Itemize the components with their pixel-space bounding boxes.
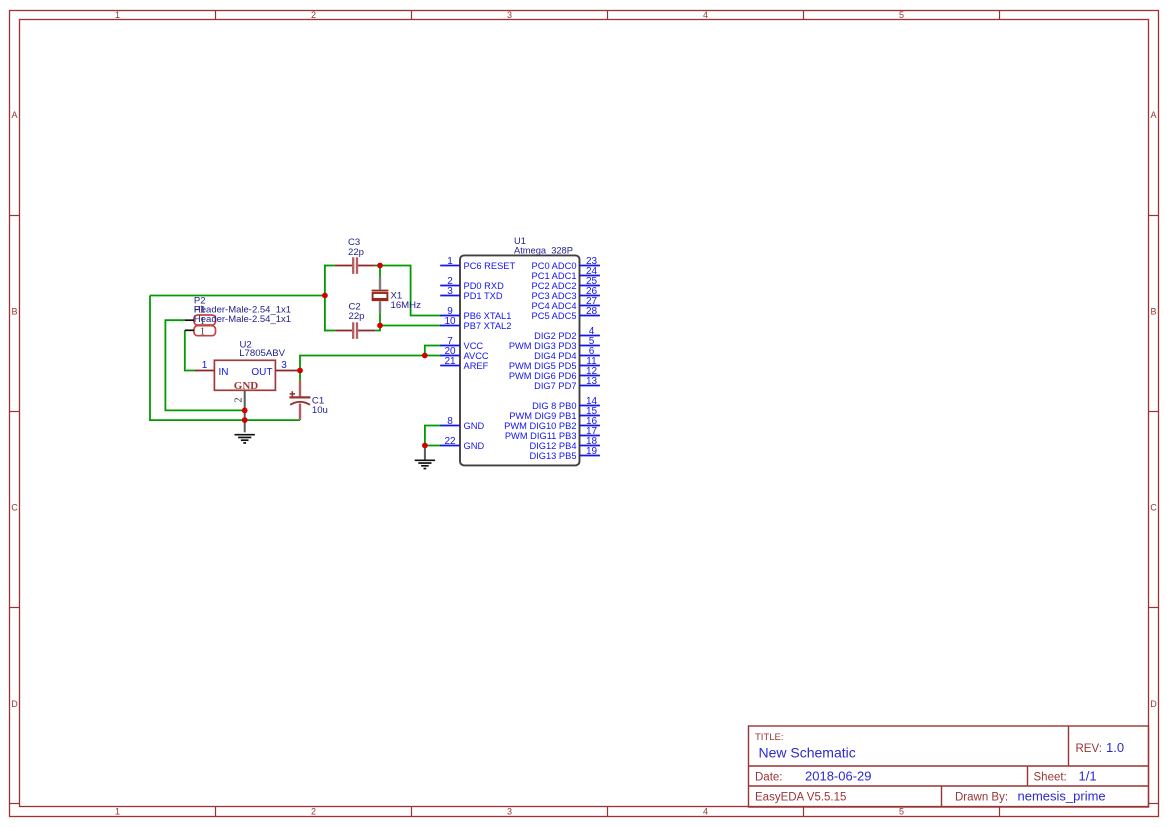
svg-text:L7805ABV: L7805ABV [239, 348, 285, 359]
junction: U2 OUT / C1+ / VCC rail [297, 368, 303, 374]
svg-text:DIG4 PD4: DIG4 PD4 [534, 351, 576, 361]
svg-text:D: D [11, 699, 18, 709]
svg-text:Date:: Date: [755, 772, 783, 784]
U1 pin 19 DIG13 PB5 [529, 446, 599, 461]
capacitor C2 22p [325, 322, 375, 339]
svg-text:10u: 10u [312, 405, 328, 416]
wire header P1 pin to U2 IN [185, 330, 196, 370]
svg-text:2: 2 [311, 10, 316, 20]
svg-text:1: 1 [202, 360, 208, 371]
svg-text:PWM DIG3 PD3: PWM DIG3 PD3 [509, 341, 577, 351]
U2 pin 2 GND lead [234, 390, 245, 432]
U1 pin 9 PB6 XTAL1 [440, 306, 511, 321]
svg-text:DIG12 PB4: DIG12 PB4 [529, 441, 576, 451]
wire VCC rail: U2 OUT node up and across to U1 VCC/AVCC [300, 356, 441, 371]
U1 pin 8 GND [440, 416, 484, 431]
svg-text:DIG2 PD2: DIG2 PD2 [534, 331, 576, 341]
wire junction to U1 pin10 XTAL2 [380, 325, 441, 327]
U1 pin 13 DIG7 PD7 [534, 376, 600, 391]
svg-text:PC6 RESET: PC6 RESET [464, 261, 516, 271]
svg-text:B: B [1150, 307, 1156, 317]
U1 pin 18 DIG12 PB4 [529, 436, 599, 451]
U1 pin 22 GND [440, 436, 484, 451]
U1 pin 27 PC4 ADC4 [532, 296, 600, 311]
svg-text:PWM DIG9 PB1: PWM DIG9 PB1 [509, 411, 576, 421]
svg-text:AREF: AREF [464, 361, 489, 371]
svg-text:PWM DIG5 PD5: PWM DIG5 PD5 [509, 361, 577, 371]
connector P1 Header-Male-2.54_1x1 (lower) [185, 326, 216, 338]
svg-text:GND: GND [464, 421, 485, 431]
U1 pin 7 VCC [440, 336, 483, 351]
svg-text:EasyEDA V5.5.15: EasyEDA V5.5.15 [755, 792, 846, 804]
svg-text:DIG13 PB5: DIG13 PB5 [529, 451, 576, 461]
svg-text:22p: 22p [349, 311, 365, 322]
U1 pin 28 PC5 ADC5 [532, 306, 600, 321]
wire GND rail left: from top power corner down and across to ground node [150, 296, 300, 421]
svg-text:PB7 XTAL2: PB7 XTAL2 [464, 321, 512, 331]
capacitor C1 10u (polarized) [289, 371, 310, 421]
svg-text:8: 8 [447, 416, 453, 427]
U1 pin 25 PC2 ADC2 [532, 276, 600, 291]
svg-text:19: 19 [586, 446, 598, 457]
ground symbol (U2 / rail) [235, 435, 255, 443]
svg-text:PC0 ADC0: PC0 ADC0 [532, 261, 577, 271]
U1 pin 4 DIG2 PD2 [534, 326, 600, 341]
junction: GND line lower (rail) [242, 417, 248, 423]
svg-text:PC2 ADC2: PC2 ADC2 [532, 281, 577, 291]
U1 pin 10 PB7 XTAL2 [440, 316, 511, 331]
svg-text:1: 1 [115, 807, 120, 817]
U1 pin 14 DIG 8 PB0 [532, 396, 600, 411]
wire C3/C2 left plates vertical [324, 265, 326, 332]
svg-text:PWM DIG10 PB2: PWM DIG10 PB2 [504, 421, 576, 431]
junction: VCC rail branch to pin7 [422, 353, 428, 359]
wire header P2 pin to ground node [165, 320, 244, 410]
svg-text:10: 10 [444, 316, 456, 327]
svg-text:A: A [1150, 110, 1156, 120]
junction: cap-ground bus meets left vertical [322, 293, 328, 299]
svg-text:PC1 ADC1: PC1 ADC1 [532, 271, 577, 281]
svg-text:PC4 ADC4: PC4 ADC4 [532, 301, 577, 311]
svg-text:AVCC: AVCC [464, 351, 489, 361]
U1 pin 26 PC3 ADC3 [532, 286, 600, 301]
U1 pin 6 DIG4 PD4 [534, 346, 600, 361]
capacitor C3 22p [325, 257, 375, 274]
title block [749, 726, 1149, 807]
svg-text:nemesis_prime: nemesis_prime [1018, 789, 1106, 804]
junction: C2 / crystal bottom / pin10 net [377, 323, 383, 329]
svg-text:PC5 ADC5: PC5 ADC5 [532, 311, 577, 321]
svg-text:REV:: REV: [1076, 743, 1102, 755]
svg-text:5: 5 [899, 807, 904, 817]
svg-text:16MHz: 16MHz [391, 300, 422, 311]
svg-text:1.0: 1.0 [1106, 740, 1124, 755]
U2 pin 1 IN lead [195, 360, 214, 371]
svg-text:IN: IN [219, 367, 229, 378]
svg-text:DIG 8 PB0: DIG 8 PB0 [532, 401, 576, 411]
svg-text:2018-06-29: 2018-06-29 [805, 769, 872, 784]
svg-text:1: 1 [447, 256, 453, 267]
svg-text:4: 4 [703, 807, 708, 817]
svg-text:TITLE:: TITLE: [755, 732, 784, 743]
svg-text:GND: GND [464, 441, 485, 451]
svg-text:Header-Male-2.54_1x1: Header-Male-2.54_1x1 [194, 314, 291, 325]
wire C2 right up to junction [375, 326, 380, 331]
ground symbol (U1 GND pins) [415, 449, 435, 469]
IC U1 Atmega_328P body [460, 255, 580, 465]
U1 pin 11 PWM DIG5 PD5 [509, 356, 600, 371]
svg-text:PWM DIG6 PD6: PWM DIG6 PD6 [509, 371, 577, 381]
wire crystal top to U1 pin9 XTAL1 [380, 266, 441, 316]
junction: U1 GND pins [422, 443, 428, 449]
svg-text:28: 28 [586, 306, 598, 317]
svg-text:C: C [11, 503, 18, 513]
svg-text:OUT: OUT [251, 367, 272, 378]
svg-text:PD0 RXD: PD0 RXD [464, 281, 505, 291]
svg-text:PD1 TXD: PD1 TXD [464, 291, 503, 301]
svg-text:3: 3 [507, 807, 512, 817]
svg-text:21: 21 [444, 356, 456, 367]
wire crystal top stub [379, 266, 381, 278]
svg-text:VCC: VCC [464, 341, 484, 351]
svg-text:22p: 22p [348, 247, 364, 258]
regulator U2 L7805ABV body [214, 360, 275, 392]
U1 pin 20 AVCC [440, 346, 489, 361]
junction: C3 / crystal top / pin9 net [377, 263, 383, 269]
wire crystal bottom to junction [379, 313, 381, 326]
svg-text:22: 22 [444, 436, 456, 447]
svg-text:Sheet:: Sheet: [1034, 772, 1067, 784]
svg-text:C: C [1150, 503, 1157, 513]
U1 pin 12 PWM DIG6 PD6 [509, 366, 600, 381]
svg-text:Drawn By:: Drawn By: [955, 792, 1008, 804]
wire U1 pin8 GND down to pin22 and ground [425, 426, 441, 449]
wire branch to U1 pin7 VCC [425, 346, 441, 356]
U1 pin 1 PC6 RESET [440, 256, 515, 271]
svg-text:PB6 XTAL1: PB6 XTAL1 [464, 311, 512, 321]
U1 pin 21 AREF [440, 356, 488, 371]
U1 pin 15 PWM DIG9 PB1 [509, 406, 600, 421]
U1 pin 23 PC0 ADC0 [532, 256, 600, 271]
U1 pin 16 PWM DIG10 PB2 [504, 416, 600, 431]
svg-text:13: 13 [586, 376, 598, 387]
svg-text:3: 3 [447, 286, 453, 297]
svg-text:3: 3 [507, 10, 512, 20]
svg-text:PWM DIG11 PB3: PWM DIG11 PB3 [505, 431, 577, 441]
wire C3 right to crystal top junction [375, 265, 380, 267]
svg-text:3: 3 [281, 360, 287, 371]
svg-text:5: 5 [899, 10, 904, 20]
svg-text:B: B [11, 307, 17, 317]
svg-text:D: D [1150, 699, 1157, 709]
svg-text:2: 2 [311, 807, 316, 817]
svg-text:4: 4 [703, 10, 708, 20]
svg-text:1: 1 [200, 326, 205, 337]
U2 pin 3 OUT lead [275, 360, 300, 371]
svg-text:1/1: 1/1 [1079, 769, 1097, 784]
svg-text:1: 1 [115, 10, 120, 20]
svg-text:2: 2 [234, 398, 245, 403]
svg-text:DIG7 PD7: DIG7 PD7 [534, 381, 576, 391]
U1 pin 2 PD0 RXD [440, 276, 504, 291]
U1 pin 17 PWM DIG11 PB3 [505, 426, 600, 441]
svg-text:GND: GND [234, 380, 259, 392]
svg-text:A: A [11, 110, 17, 120]
U1 pin 5 PWM DIG3 PD3 [509, 336, 600, 351]
junction: GND line upper (header wire) [242, 408, 248, 414]
svg-text:PC3 ADC3: PC3 ADC3 [532, 291, 577, 301]
svg-text:New Schematic: New Schematic [759, 745, 856, 761]
svg-text:Atmega_328P: Atmega_328P [514, 245, 573, 255]
U1 pin 3 PD1 TXD [440, 286, 503, 301]
wire cap-ground bus: horizontal from corner to C2/C3 left vertical [150, 295, 325, 297]
crystal X1 16MHz [372, 277, 389, 313]
connector P2 Header-Male-2.54_1x1 (upper) [185, 315, 216, 327]
U1 pin 24 PC1 ADC1 [532, 266, 600, 281]
